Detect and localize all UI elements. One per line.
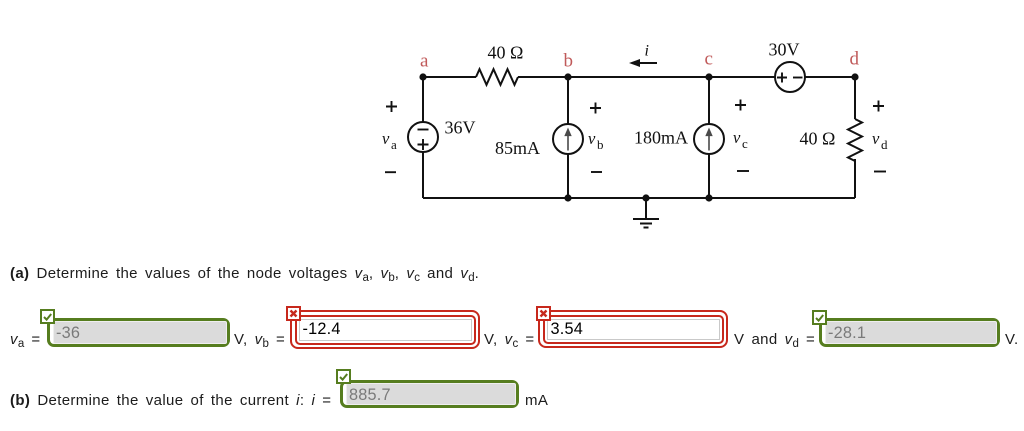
svg-text:40 Ω: 40 Ω (800, 129, 836, 149)
svg-text:c: c (742, 136, 748, 151)
svg-text:85mA: 85mA (495, 138, 540, 158)
svg-text:b: b (597, 137, 604, 152)
svg-text:d: d (881, 137, 888, 152)
svg-text:d: d (850, 49, 860, 70)
svg-text:40 Ω: 40 Ω (488, 43, 524, 63)
svg-text:c: c (705, 49, 713, 70)
svg-text:v: v (588, 129, 596, 148)
svg-text:a: a (420, 51, 429, 72)
svg-text:a: a (391, 137, 397, 152)
svg-text:v: v (872, 129, 880, 148)
svg-text:i: i (645, 43, 649, 60)
svg-text:v: v (733, 128, 741, 147)
svg-text:30V: 30V (769, 40, 800, 60)
svg-text:v: v (382, 129, 390, 148)
svg-text:180mA: 180mA (634, 128, 688, 148)
svg-text:36V: 36V (445, 118, 476, 138)
svg-text:b: b (564, 51, 574, 72)
